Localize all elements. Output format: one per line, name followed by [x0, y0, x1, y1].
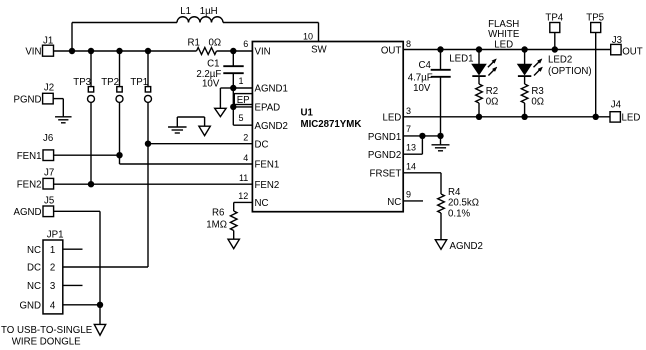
wire R1 to pin6 [217, 50, 253, 52]
svg-text:R2: R2 [486, 86, 498, 97]
LED2 [518, 50, 592, 77]
ground net-tie bracket [177, 117, 204, 127]
test point TP4 [545, 12, 563, 49]
svg-text:8: 8 [406, 39, 411, 49]
svg-text:20.5kΩ: 20.5kΩ [448, 198, 479, 209]
svg-text:7: 7 [406, 124, 411, 134]
svg-text:10: 10 [303, 32, 313, 42]
wire top rail right [223, 22, 319, 24]
wire FRSET [403, 173, 441, 194]
svg-text:0Ω: 0Ω [531, 97, 544, 108]
wire J5 down [54, 211, 100, 324]
svg-text:FLASH: FLASH [488, 19, 519, 30]
wire VIN to top rail [71, 23, 73, 52]
pin 13 PGND2 [368, 143, 416, 162]
svg-text:C4: C4 [419, 60, 432, 71]
svg-text:1µH: 1µH [200, 6, 218, 17]
wire pin1 to EPAD [232, 88, 234, 107]
wire AGND branch [220, 88, 233, 108]
svg-text:TP5: TP5 [586, 12, 604, 23]
wire LED2 to R3 [524, 76, 526, 84]
ground earth bars [168, 127, 187, 133]
svg-text:3: 3 [406, 106, 411, 116]
test point TP3 circle [88, 95, 95, 102]
label dongle [1, 325, 93, 348]
svg-text:AGND: AGND [14, 207, 42, 218]
wire PGND2 up [403, 136, 422, 154]
svg-text:FRSET: FRSET [370, 168, 402, 179]
node TP1-DC [145, 141, 151, 147]
connector J7 [17, 167, 55, 190]
svg-text:13: 13 [406, 143, 416, 153]
wire FEN1 to pin4 [120, 155, 253, 164]
svg-text:11: 11 [239, 173, 248, 183]
svg-text:1MΩ: 1MΩ [206, 220, 227, 231]
svg-text:PGND1: PGND1 [368, 132, 401, 143]
svg-text:TP4: TP4 [545, 12, 563, 23]
svg-text:OUT: OUT [622, 46, 643, 57]
svg-text:DC: DC [255, 139, 269, 150]
svg-text:PGND: PGND [14, 95, 42, 106]
node TP5-LED [593, 114, 599, 120]
test point TP1 stub [147, 51, 149, 87]
wire R3 down [524, 103, 526, 117]
pin 9 NC [387, 190, 411, 208]
pin 2 DC [243, 133, 268, 151]
svg-text:AGND1: AGND1 [255, 84, 288, 95]
wire LED rail [403, 116, 610, 118]
svg-text:VIN: VIN [255, 47, 271, 58]
wire TP3 down [90, 103, 92, 185]
wire J6 to node [54, 154, 120, 156]
node VIN-toprail [69, 48, 75, 54]
svg-text:LED1: LED1 [449, 53, 473, 64]
test point TP2 stub [119, 51, 121, 87]
svg-text:R6: R6 [212, 207, 224, 218]
connector J6 [17, 133, 54, 162]
svg-text:LED: LED [494, 40, 513, 51]
svg-text:14: 14 [406, 161, 416, 171]
label TP3 [73, 77, 91, 88]
label TP2 [101, 77, 119, 88]
ground AGND2 [435, 240, 483, 252]
svg-text:0.1%: 0.1% [448, 208, 470, 219]
svg-text:LED: LED [622, 113, 641, 124]
test point TP2 pad [117, 87, 122, 92]
op-amp U1 body [252, 42, 403, 212]
connector J4 [610, 100, 640, 124]
svg-text:FEN2: FEN2 [255, 180, 280, 191]
svg-text:FEN2: FEN2 [17, 180, 42, 191]
resistor R6 [206, 207, 237, 230]
pin 11 FEN2 [239, 173, 279, 191]
connector JP1 body [43, 230, 64, 314]
svg-text:AGND2: AGND2 [450, 241, 483, 252]
svg-text:J6: J6 [43, 133, 53, 144]
svg-text:J5: J5 [44, 196, 54, 207]
node GND-JP1 [97, 302, 103, 308]
node TP3-FEN2 [88, 181, 94, 187]
test point TP3 stub [90, 51, 92, 87]
connector J2 [14, 83, 55, 106]
ground PGND earth [55, 117, 72, 123]
svg-text:TP3: TP3 [73, 77, 91, 88]
wire PGND1 stub [403, 135, 440, 137]
pin 3 LED [382, 106, 411, 123]
capacitor C1 [196, 51, 243, 89]
ground AGND near C1 [215, 108, 226, 116]
wire EPAD to pin5 [233, 107, 252, 125]
svg-text:J1: J1 [43, 36, 53, 47]
connector J5 [14, 196, 55, 219]
node R3 bottom [521, 114, 527, 120]
svg-text:PGND2: PGND2 [368, 150, 401, 161]
svg-text:AGND2: AGND2 [255, 121, 288, 132]
EP box [234, 94, 252, 106]
capacitor C4 [408, 50, 451, 136]
pin 12 NC [238, 191, 268, 209]
svg-text:WHITE: WHITE [488, 29, 520, 40]
pin JP1-1 [27, 245, 83, 256]
wire LED1 to R2 [478, 76, 480, 84]
wire top rail left [72, 22, 177, 24]
svg-text:12: 12 [238, 191, 248, 201]
pin 8 OUT [381, 39, 411, 57]
pin 14 FRSET [370, 161, 416, 179]
svg-text:NC: NC [27, 281, 41, 292]
svg-text:0Ω: 0Ω [209, 37, 222, 48]
svg-text:3: 3 [50, 281, 55, 292]
node VIN-TP2 [116, 48, 122, 54]
svg-text:4: 4 [243, 153, 248, 163]
pin 1 AGND1 [238, 76, 287, 95]
node R2 bottom [476, 114, 482, 120]
ground AGND at R6 [228, 239, 239, 248]
test point TP2 circle [116, 95, 123, 102]
pin 4 FEN1 [243, 153, 279, 171]
svg-text:WIRE DONGLE: WIRE DONGLE [12, 337, 81, 348]
resistor R3 [521, 84, 544, 108]
pin 6 VIN [243, 39, 270, 58]
svg-text:R3: R3 [531, 86, 543, 97]
wire VIN rail [54, 50, 197, 52]
svg-text:TP1: TP1 [130, 77, 148, 88]
svg-text:(OPTION): (OPTION) [548, 66, 592, 77]
svg-text:NC: NC [387, 197, 401, 208]
svg-text:VIN: VIN [25, 47, 41, 58]
svg-text:LED2: LED2 [548, 55, 572, 66]
ground dongle triangle [94, 324, 105, 335]
svg-text:MIC2871YMK: MIC2871YMK [301, 119, 362, 130]
svg-text:C1: C1 [207, 58, 219, 69]
svg-text:JP1: JP1 [47, 230, 64, 241]
pin JP1-2 [27, 263, 148, 274]
node LED2 top [521, 46, 527, 52]
svg-text:10V: 10V [413, 83, 431, 94]
node LED1 top [476, 46, 482, 52]
wire R4 down [440, 213, 442, 240]
ground PGND earth [432, 145, 450, 151]
svg-text:U1: U1 [301, 108, 314, 119]
test point TP1 circle [145, 95, 152, 102]
wire pin1 stub [233, 87, 252, 89]
svg-text:10V: 10V [202, 78, 220, 89]
pin 7 PGND1 [368, 124, 411, 143]
svg-text:NC: NC [27, 245, 41, 256]
wire J2 to ground [53, 99, 63, 117]
label flash white led [488, 19, 520, 51]
pin EPAD [255, 103, 281, 114]
node C1 top [230, 48, 236, 54]
node C1 bottom / pin1 [230, 85, 236, 91]
svg-text:TP2: TP2 [101, 77, 119, 88]
svg-text:5: 5 [238, 113, 243, 123]
node C4 [437, 46, 443, 52]
svg-text:OUT: OUT [381, 45, 402, 56]
svg-text:9: 9 [406, 190, 411, 200]
svg-text:6: 6 [243, 39, 248, 49]
wire TP2 down [119, 103, 121, 156]
svg-text:1: 1 [50, 245, 55, 256]
ground AGND triangle [199, 126, 210, 135]
wire NC9 stub [403, 200, 423, 202]
node VIN-TP1 [145, 48, 151, 54]
node PGND1-PGND2 [419, 133, 425, 139]
resistor R2 [476, 84, 499, 108]
svg-text:J3: J3 [612, 35, 622, 46]
svg-text:NC: NC [255, 198, 269, 209]
svg-text:2: 2 [50, 263, 55, 274]
svg-text:LED: LED [382, 113, 401, 124]
svg-text:FEN1: FEN1 [255, 160, 280, 171]
wire R2 down [478, 103, 480, 117]
svg-text:J4: J4 [611, 100, 622, 111]
pin 5 AGND2 [238, 113, 287, 132]
LED1 [449, 50, 497, 77]
wire J7 to pin11 [54, 183, 253, 185]
svg-text:J2: J2 [44, 83, 54, 94]
connector J1 [25, 36, 53, 58]
resistor R1 [188, 37, 222, 54]
svg-text:J7: J7 [44, 167, 54, 178]
svg-text:EPAD: EPAD [255, 103, 281, 114]
resistor R4 [438, 187, 479, 220]
pin JP1-3 [27, 281, 83, 292]
node TP4 [552, 46, 558, 52]
pin 10 SW [303, 32, 328, 56]
label TP1 [130, 77, 148, 88]
node PGND1-C4 [437, 133, 443, 139]
svg-text:L1: L1 [180, 6, 191, 17]
wire EPAD stub [233, 106, 252, 108]
test point TP1 pad [145, 87, 150, 92]
svg-text:TO USB-TO-SINGLE: TO USB-TO-SINGLE [1, 325, 93, 336]
node EPAD [230, 104, 236, 110]
wire SW drop [318, 23, 320, 42]
node TP2-FEN1 [116, 152, 122, 158]
svg-text:2: 2 [243, 133, 248, 143]
wire C4 ground drop [440, 136, 442, 145]
svg-text:EP: EP [237, 95, 250, 106]
test point TP5 [586, 12, 604, 116]
wire TP1 down [147, 103, 149, 267]
wire DC to pin2 [148, 143, 252, 145]
wire OUT rail [403, 49, 611, 51]
svg-text:GND: GND [19, 301, 41, 312]
wire pin12 to R6 [234, 202, 253, 211]
svg-text:FEN1: FEN1 [17, 151, 42, 162]
inductor L1 [177, 6, 223, 23]
svg-text:SW: SW [311, 45, 327, 56]
svg-text:R4: R4 [448, 187, 461, 198]
svg-text:0Ω: 0Ω [486, 97, 499, 108]
svg-text:R1: R1 [188, 37, 200, 48]
pin JP1-4 [19, 301, 100, 312]
test point TP3 pad [88, 87, 93, 92]
node VIN-TP3 [88, 48, 94, 54]
svg-text:DC: DC [27, 263, 41, 274]
svg-text:1: 1 [238, 76, 243, 86]
connector J3 [611, 35, 643, 57]
wire R6 down [233, 231, 235, 240]
svg-text:4: 4 [50, 301, 56, 312]
